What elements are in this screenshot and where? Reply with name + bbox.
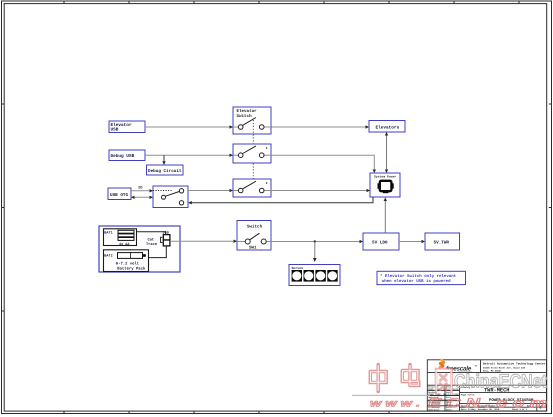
wire 5V LDO to System Power: [384, 198, 387, 234]
wire SW1 to 5V LDO: [271, 240, 363, 243]
watermark CJK wang: [436, 369, 452, 392]
block USB OTG: [108, 188, 131, 200]
battery BAT1 4x AA: [104, 229, 137, 247]
title block drawing number: [461, 386, 510, 393]
svg-text:SW1: SW1: [249, 245, 257, 250]
svg-text:E C N . c o m: E C N . c o m: [428, 396, 547, 410]
title block size and sheet row: [461, 404, 543, 411]
block Debug USB: [109, 150, 145, 161]
svg-text:5V_TWR: 5V_TWR: [434, 241, 450, 246]
wire J60 to switch SW1: [170, 240, 237, 243]
wire S3 to System Power: [271, 189, 370, 192]
freescale logo: [439, 359, 478, 374]
block 5V LDO: [363, 233, 399, 250]
wire Elevator USB to Elevator Switch: [145, 125, 233, 128]
note elevator switch: [377, 271, 466, 284]
svg-text:Elevators: Elevators: [376, 124, 400, 130]
switch S4 USB OTG SPDT: [153, 186, 188, 208]
svg-text:System Power: System Power: [374, 175, 396, 179]
svg-text:when elevator USB is powered: when elevator USB is powered: [382, 279, 451, 284]
switch S3 OTG power: [233, 179, 271, 197]
svg-text:6-7.2 volt: 6-7.2 volt: [116, 262, 139, 267]
wire BAT2 to J60: [149, 246, 167, 258]
wire OTG switch to S3: [188, 189, 233, 192]
svg-text:4x AA: 4x AA: [119, 242, 130, 247]
wire S2 to System Power: [271, 155, 376, 173]
svg-text:Cut: Cut: [148, 238, 155, 243]
svg-text:Detroit Automotive Technology: Detroit Automotive Technology Center: [483, 362, 546, 366]
switch S2 debug: [233, 144, 271, 163]
gang linkage dashed line: [252, 120, 254, 184]
svg-text:BAT1: BAT1: [104, 231, 112, 236]
title block address: [483, 362, 546, 373]
battery assembly group: [99, 226, 180, 272]
wire Elevator Switch to Elevators: [271, 125, 369, 128]
svg-text:BAT2: BAT2: [104, 254, 112, 259]
watermark underline gray: [352, 395, 430, 396]
wire OTG switch to USB OTG return: [131, 196, 153, 199]
svg-text:USB OTG: USB OTG: [110, 193, 128, 198]
svg-text:Servos: Servos: [292, 266, 304, 270]
wire tap to Debug Circuit: [162, 155, 165, 165]
wire 5V LDO to 5V_TWR: [399, 240, 425, 243]
svg-text:USB: USB: [111, 128, 119, 133]
svg-text:Battery Pack: Battery Pack: [117, 267, 146, 272]
watermark CJK zhong: [370, 365, 386, 392]
title block page title: [461, 393, 534, 403]
wire BAT1 to J60: [137, 232, 166, 235]
watermark CJK dian: [402, 365, 419, 386]
wire System Power to OTG switch 5V return: [188, 197, 373, 204]
switch SW1: [237, 221, 271, 251]
connector group Servos: [289, 265, 340, 286]
wire USB OTG ID to OTG switch: [131, 189, 153, 192]
block Elevators: [369, 121, 405, 133]
svg-text:ChinaECNet: ChinaECNet: [454, 372, 548, 393]
svg-text:ID: ID: [138, 186, 143, 191]
svg-text:w w w .: w w w .: [370, 399, 420, 410]
block System Power U1: [370, 173, 400, 197]
wire Elevators to System Power bidirectional: [385, 132, 388, 173]
label Cut Trace: [146, 238, 158, 248]
svg-text:* Elevator Switch only relevan: * Elevator Switch only relevant: [380, 274, 457, 279]
switch S1 Elevator Switch: [233, 107, 271, 134]
svg-text:Debug USB: Debug USB: [111, 153, 135, 159]
block Elevator USB: [109, 121, 145, 133]
svg-text:Debug Circuit: Debug Circuit: [148, 168, 182, 174]
junction servo tap: [314, 240, 316, 242]
connector J60: [161, 231, 170, 246]
wire tap to Servos: [313, 242, 317, 263]
title block frame: [427, 360, 546, 411]
title block fields left columns: [428, 386, 460, 412]
wire Debug USB to switch S2: [145, 154, 233, 157]
svg-text:Trace: Trace: [146, 242, 158, 247]
block 5V_TWR: [425, 233, 460, 250]
svg-text:5V LDO: 5V LDO: [372, 241, 388, 246]
block Debug Circuit: [147, 165, 184, 175]
battery BAT2 pack: [104, 250, 149, 272]
